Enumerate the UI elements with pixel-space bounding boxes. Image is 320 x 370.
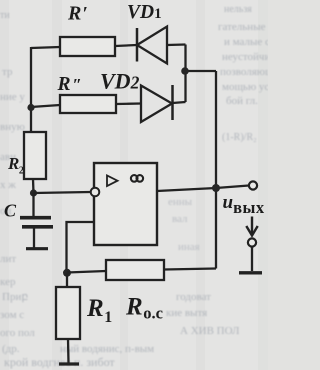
svg-text:и малые с: и малые с — [224, 36, 268, 48]
terminal: output lower — [248, 238, 256, 246]
svg-text:лит: лит — [0, 253, 16, 265]
wire: op-amp output to terminal — [157, 186, 249, 192]
wire: left rail junction to R'' — [31, 105, 60, 107]
wire: diode junction to right rail — [185, 70, 217, 72]
resistor R'' — [60, 95, 116, 113]
svg-text:C: C — [4, 201, 17, 221]
arrow u_vyh — [246, 217, 257, 236]
node feedback junction — [63, 269, 71, 277]
svg-text:VD2: VD2 — [100, 69, 140, 94]
svg-text:иная: иная — [178, 241, 200, 253]
wire: R' right lead to VD1 cathode — [115, 45, 137, 46]
svg-text:R′: R′ — [67, 3, 88, 25]
wire: node down to capacitor — [32, 193, 34, 217]
resistor R1 — [56, 287, 80, 339]
wire: node to op-amp inverting input — [34, 192, 91, 193]
capacitor C top plate — [20, 216, 51, 220]
right vertical rail — [215, 71, 217, 269]
svg-text:енны: енны — [168, 196, 193, 208]
diode VD1 — [137, 27, 167, 64]
svg-text:крой водгнес п. зибот: крой водгнес п. зибот — [4, 355, 115, 369]
node output junction — [212, 184, 220, 192]
svg-text:х ж: х ж — [0, 179, 16, 191]
wire: left vertical rail from R' corner down to R2 — [30, 47, 32, 132]
wire: R'' right lead to VD2 anode — [116, 102, 141, 105]
svg-text:(др.: (др. — [2, 343, 20, 355]
resistor R_oc — [106, 260, 164, 280]
svg-text:(1-R)/R₂: (1-R)/R₂ — [222, 132, 257, 143]
svg-text:бой гл.: бой гл. — [226, 95, 258, 107]
resistor R' — [60, 37, 115, 56]
diode VD2 — [141, 85, 173, 122]
svg-text:ого пол: ого пол — [0, 327, 35, 339]
svg-text:VD1: VD1 — [127, 2, 162, 23]
op-amp infinity gain mark — [131, 175, 143, 182]
svg-text:мощью ус: мощью ус — [222, 81, 268, 93]
svg-text:тр: тр — [2, 66, 13, 78]
ground (capacitor) — [26, 247, 48, 250]
wire: R' left lead to left rail corner — [31, 47, 60, 48]
svg-text:годоват: годоват — [176, 291, 211, 303]
svg-text:вную: вную — [0, 121, 25, 133]
node left rail junction — [27, 104, 34, 111]
svg-text:Приբ: Приբ — [2, 291, 28, 303]
svg-text:вал: вал — [172, 213, 188, 225]
wire: feedback node down to R1 — [66, 273, 68, 287]
wire: VD1 anode to common vertical — [167, 43, 186, 46]
wire: VD2 cathode to common vertical — [173, 102, 186, 103]
svg-text:гательные: гательные — [218, 21, 266, 33]
svg-text:кер: кер — [0, 276, 16, 288]
node below R2 — [30, 189, 37, 196]
op-amp U1 — [91, 163, 157, 245]
wire: capacitor to ground — [33, 228, 35, 248]
wire: feedback node to R_oc — [67, 271, 106, 273]
svg-text:ние у: ние у — [0, 91, 25, 103]
terminal: output upper — [249, 181, 257, 189]
svg-text:неустойчи: неустойчи — [222, 51, 268, 63]
svg-text:нельзя: нельзя — [224, 4, 252, 15]
ground (output) — [239, 271, 262, 274]
capacitor C bottom plate — [22, 225, 53, 229]
svg-text:ти: ти — [0, 10, 10, 21]
ground (R1) — [59, 362, 79, 365]
wire: diode common vertical segment — [184, 45, 186, 103]
wire: R1 bottom to ground — [67, 339, 70, 363]
node diode junction — [181, 67, 189, 75]
svg-text:зом с: зом с — [0, 309, 24, 321]
wire: lower terminal to ground — [251, 247, 253, 271]
svg-text:R″: R″ — [57, 74, 82, 95]
svg-text:кие вытя: кие вытя — [166, 307, 207, 319]
svg-text:ный водянис, п-вым: ный водянис, п-вым — [60, 343, 154, 355]
wire: R_oc right lead to right rail — [164, 269, 216, 270]
svg-text:позволяющ: позволяющ — [220, 66, 268, 78]
wire: op-amp non-inverting input to feedback node — [67, 222, 95, 273]
resistor R2 — [24, 132, 46, 179]
wire: R2 bottom to node — [32, 179, 35, 193]
svg-text:А ХИВ ПОЛ: А ХИВ ПОЛ — [180, 325, 240, 337]
